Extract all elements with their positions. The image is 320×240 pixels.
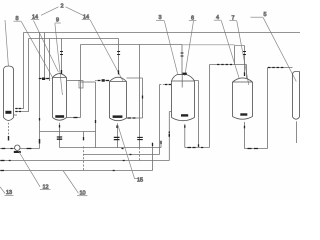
C downcomer dashes: [168, 132, 170, 139]
wire: drop to A dome left: [49, 39, 51, 82]
vessel A dashed side feed: [39, 78, 53, 80]
vessel C neck blob: [182, 73, 186, 75]
pipe: D vent: [246, 65, 248, 79]
pipe: mid drop to bus: [83, 132, 85, 141]
pipe: A vapor out: [67, 80, 81, 82]
transfer marks bottom: [248, 148, 259, 150]
vessel B feed arrow: [118, 70, 120, 74]
label 15: [137, 177, 143, 183]
pump P1 base: [14, 151, 21, 153]
label 12 leader from pump: [19, 151, 41, 187]
pipe: mid drop dashed lower: [83, 147, 85, 171]
vessel D drain: [244, 122, 246, 149]
pipe: B riser connector: [81, 81, 96, 83]
pipe: B feed riser: [95, 82, 97, 148]
pipe: under-A transfer line: [40, 131, 96, 133]
vessel A bottom dish: [53, 118, 67, 121]
vessel C body: [172, 81, 195, 118]
transfer dashes top: [268, 67, 284, 69]
vessel A drain marks: [57, 125, 62, 139]
pump discharge line: [0, 148, 40, 150]
pipe: D to E transfer: [245, 68, 293, 149]
vessel E bottom dish: [293, 117, 300, 119]
B feed blob: [102, 79, 105, 82]
A loop return marks: [74, 117, 78, 119]
column V1 liquid blob: [5, 111, 11, 114]
leader 14 right: [90, 20, 123, 81]
label 10 leader: [63, 171, 79, 194]
column V1 drain arrow: [8, 136, 10, 141]
pipe: B vapor loop: [127, 78, 143, 118]
label 9: [55, 18, 61, 24]
riser tick: [39, 118, 41, 121]
pipe: C right riser: [195, 81, 199, 147]
mid drop arrow: [83, 137, 85, 140]
pipe: tall mid-right vertical: [209, 65, 211, 148]
pump discharge marks: [2, 148, 32, 150]
column V1 body: [4, 66, 14, 118]
bus4 left marks: [1, 170, 5, 172]
curtain valve marks: [137, 137, 143, 139]
label 6: [189, 15, 197, 21]
vessel B dome: [110, 77, 127, 81]
bus4 dot: [113, 170, 115, 172]
D aux drop: [234, 46, 236, 65]
inline component on A downcomer: [79, 81, 83, 89]
vessel C bottom dish: [172, 118, 195, 121]
label 7: [229, 15, 237, 21]
svg-text:5: 5: [263, 12, 266, 18]
vessel B drain: [117, 123, 119, 147]
label 4: [214, 15, 222, 21]
leader 5: [263, 17, 296, 81]
column V1 vent: [5, 20, 8, 66]
C right riser dot: [198, 144, 200, 147]
pump P1 circle: [15, 145, 20, 150]
B loop return marks: [128, 117, 136, 119]
label 12: [40, 184, 51, 190]
label 5: [251, 12, 267, 18]
vessel C dip tube: [181, 74, 183, 87]
vessel A top feed pipe: [61, 39, 63, 74]
leader 7: [237, 21, 249, 85]
vessel C drain mark: [184, 125, 186, 128]
wire: column inlet dashes lower: [16, 111, 23, 113]
bus4 riser arrow: [152, 143, 154, 146]
vessel B bottom dish: [110, 118, 127, 121]
leader 6: [185, 21, 194, 76]
leader 9: [55, 23, 63, 95]
bottom bus line 1: [60, 147, 162, 149]
vessel D top feed pipe: [244, 46, 246, 76]
vessel D dome: [233, 78, 253, 82]
wire: header2 left drop to column: [15, 39, 29, 112]
pipe: C left downcomer: [169, 112, 171, 161]
vessel D body: [233, 82, 253, 117]
vessel C dashed feed: [160, 84, 172, 86]
vessel E body: [293, 72, 300, 118]
top header pipe 3 right part: [182, 44, 245, 47]
vessel A feed arrow: [61, 70, 63, 74]
D feed valve marks: [243, 52, 246, 55]
bus1 dot: [122, 148, 124, 150]
leader from 2 to right 14: [66, 7, 84, 16]
bus1 right riser: [160, 141, 162, 148]
bus3 left marks: [1, 160, 5, 162]
label 15 leader: [118, 126, 138, 179]
label 8: [14, 16, 22, 22]
vessel D bottom dish: [233, 117, 253, 120]
vessel B dashed feed: [95, 80, 109, 82]
vessel B body: [110, 82, 127, 119]
B riser tick: [95, 120, 97, 123]
C downcomer arrow: [168, 134, 170, 137]
C drain elbow marks: [188, 147, 204, 149]
bus4 right riser: [152, 143, 154, 171]
wire: column inlet dashes upper: [16, 108, 23, 110]
B feed marks: [98, 80, 110, 82]
pipe: C feed riser: [159, 85, 161, 155]
vessel B top feed pipe: [118, 39, 120, 75]
vessel A body: [53, 78, 67, 118]
column V1 side stub: [14, 114, 18, 116]
svg-text:2: 2: [60, 3, 63, 9]
vessel E drain: [296, 121, 298, 143]
leader from 2 to left 14: [41, 7, 59, 16]
side feed marks: [39, 78, 49, 80]
pipe: curtain dashed lower: [139, 148, 141, 161]
vessel B drain marks: [114, 125, 120, 139]
side feed blob: [42, 78, 45, 81]
label 13 leader: [0, 187, 5, 194]
D vent header dashes: [217, 64, 232, 66]
vessel D liquid blob: [240, 113, 247, 115]
column V1 bottom dish: [4, 118, 14, 121]
svg-text:15: 15: [137, 177, 143, 183]
top header pipe 2: [29, 38, 119, 40]
vessel A feed valve marks: [60, 52, 63, 55]
label 14 right: [82, 14, 90, 20]
vessel C top feed pipe: [181, 45, 183, 75]
label 3: [156, 15, 164, 21]
label 10: [77, 190, 88, 196]
bottom bus line 2: [84, 154, 160, 156]
pipe: C drain elbow to riser: [185, 147, 210, 149]
vessel B feed valve marks: [117, 52, 120, 55]
vessel C neck: [172, 74, 195, 81]
riser valve mark: [39, 139, 41, 144]
bus3 dots: [9, 160, 125, 162]
D drain mark: [244, 126, 246, 129]
B loop tick: [142, 96, 144, 99]
pipe: D vent header: [210, 64, 247, 66]
leader 4: [221, 21, 239, 78]
leader 8: [21, 22, 52, 78]
column V1 drain dashed: [8, 123, 10, 137]
label 14 left: [31, 14, 39, 20]
vessel A liquid blob: [55, 115, 64, 118]
wire: drop to A side feed: [44, 33, 46, 79]
top header pipe 3: [81, 44, 183, 46]
pipe: A loop return: [67, 117, 81, 119]
bus1 riser arrow: [160, 141, 162, 144]
leader 3: [164, 21, 177, 74]
pipe: A loop downcomer: [80, 45, 82, 118]
C feed marks: [165, 84, 171, 86]
bottom bus line 4: [0, 170, 153, 172]
top header pipe 1: [24, 32, 301, 34]
label 2: [60, 3, 63, 9]
D feed arrow: [244, 72, 246, 76]
bus2 dot: [130, 154, 132, 156]
vessel C drain: [184, 124, 186, 148]
pump suction riser: [39, 33, 41, 149]
vessel A dome: [53, 74, 67, 78]
vessel A drain: [59, 123, 61, 148]
leader 14 left: [34, 21, 59, 73]
vessel C feed valve marks: [181, 53, 184, 56]
label 13: [5, 190, 14, 196]
vessel C liquid blob: [181, 114, 188, 116]
wire: header1 left drop to column: [15, 33, 24, 109]
vessel B liquid blob: [113, 115, 123, 118]
bottom bus line 3: [0, 160, 169, 162]
pipe: curtain drop: [139, 45, 141, 148]
